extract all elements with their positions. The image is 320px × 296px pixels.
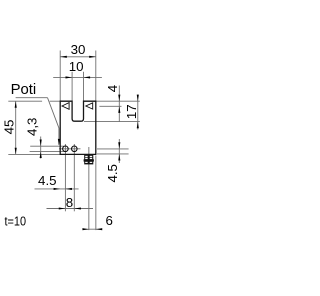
svg-text:Poti: Poti: [11, 81, 37, 98]
svg-text:4,3: 4,3: [25, 118, 40, 137]
svg-text:6: 6: [105, 213, 112, 228]
svg-text:30: 30: [71, 42, 86, 57]
svg-text:4.5: 4.5: [38, 173, 57, 188]
svg-text:45: 45: [1, 120, 16, 135]
svg-text:4.5: 4.5: [105, 164, 120, 183]
svg-text:10: 10: [69, 59, 84, 74]
svg-text:17: 17: [124, 104, 139, 119]
svg-text:t=10: t=10: [5, 213, 27, 228]
svg-text:4: 4: [105, 85, 120, 92]
svg-text:8: 8: [66, 195, 73, 210]
